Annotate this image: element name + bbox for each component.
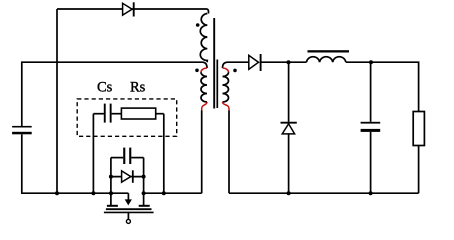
junction dot body diode left — [109, 175, 113, 179]
wire snubber left vertical — [92, 114, 94, 194]
transformer T1 secondary red tail to lead — [223, 102, 230, 111]
wire inductor to output — [346, 62, 419, 111]
svg-text:Rs: Rs — [130, 80, 146, 96]
transformer T1 secondary winding top corner — [223, 62, 228, 68]
wire output cap lower — [370, 132, 372, 193]
diode D3 (reset, top) — [123, 2, 134, 16]
resistor RL (load) — [413, 112, 424, 146]
junction dot output cap bottom — [369, 191, 373, 195]
junction dot input branch / bottom rail — [55, 191, 59, 195]
inductor L1 — [307, 50, 350, 62]
transformer T1 lower primary winding top corner — [203, 62, 208, 68]
junction dot snubber right / drain rail — [162, 191, 166, 195]
wire middle rail (input plus) — [21, 61, 203, 63]
junction dot body diode right — [142, 175, 146, 179]
wire mosfet right vertical (drain leg) — [143, 158, 145, 206]
transformer T1 secondary winding — [223, 72, 229, 102]
phase dot secondary — [233, 69, 237, 73]
wire freewheel diode upper — [288, 62, 290, 122]
capacitor Coss — [123, 148, 131, 164]
wire snubber chain left — [93, 113, 104, 115]
wire Coss loop top left — [111, 157, 123, 159]
wire mosfet left vertical (source leg) — [110, 158, 112, 206]
phase dot lower primary — [195, 69, 199, 73]
wire snubber chain right — [156, 113, 164, 115]
wire freewheel diode lower — [288, 134, 290, 193]
capacitor C2 (output) — [361, 122, 381, 132]
wire input cap branch upper — [21, 62, 23, 127]
wire secondary bottom rail — [229, 192, 419, 194]
wire snubber chain middle — [112, 113, 122, 115]
wire body diode branch — [111, 176, 144, 178]
transformer core bar right — [216, 60, 218, 109]
wire drain net rail — [144, 192, 202, 194]
wire output cap upper — [370, 62, 372, 122]
junction dot snubber left / bottom rail — [91, 191, 95, 195]
phase dot upper primary — [196, 23, 200, 27]
snubber dashed box — [77, 99, 177, 136]
capacitor Cs — [104, 104, 112, 123]
wire load bottom — [418, 146, 420, 194]
junction dot output cap top — [369, 60, 373, 64]
transformer T1 secondary winding red segment top — [223, 68, 229, 72]
junction dot freewheel node — [287, 60, 291, 64]
wire primary bottom lead to drain net — [201, 111, 203, 194]
transformer core bar left — [213, 18, 215, 109]
capacitor C1 (input) — [12, 126, 32, 134]
wire secondary bottom lead — [228, 111, 230, 194]
wire rectifier to inductor — [261, 61, 306, 63]
diode D2 (freewheeling) — [281, 123, 297, 134]
diode D1 (output rectifier) — [249, 54, 261, 71]
junction dot mosfet drain / drain rail — [142, 191, 146, 195]
resistor Rs — [121, 108, 155, 119]
wire snubber right vertical — [163, 114, 165, 194]
transformer T1 lower primary winding red segment top — [201, 68, 207, 72]
wire secondary top to rectifier — [228, 61, 249, 63]
transformer T1 lower primary red tail to lead — [202, 102, 207, 111]
transformer T1 upper primary (reset) winding — [200, 14, 207, 63]
wire Coss loop top right — [131, 157, 143, 159]
junction dot mosfet source / bottom rail — [109, 191, 113, 195]
wire top rail — [57, 9, 209, 14]
svg-text:Cs: Cs — [97, 80, 113, 96]
wire left input branch vertical — [56, 9, 58, 193]
junction dot freewheel bottom — [287, 191, 291, 195]
wire bottom left rail (source net) — [21, 192, 128, 194]
transistor Q1 MOSFET — [104, 193, 154, 223]
diode D4 (body diode) — [122, 170, 133, 183]
wire input cap branch lower — [21, 134, 23, 193]
transformer T1 lower primary winding — [201, 72, 207, 102]
